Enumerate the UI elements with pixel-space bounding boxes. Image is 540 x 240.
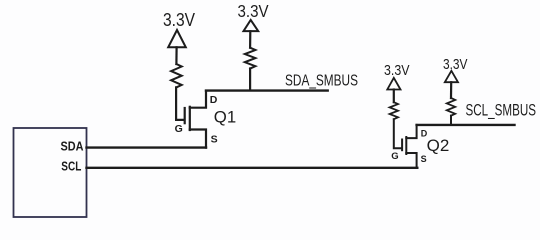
transistor Q2 gate bar bbox=[401, 140, 403, 151]
svg-text:S: S bbox=[211, 134, 218, 146]
svg-text:3.3V: 3.3V bbox=[163, 10, 195, 30]
svg-text:SCL_SMBUS: SCL_SMBUS bbox=[466, 102, 537, 120]
svg-text:G: G bbox=[175, 123, 183, 135]
wire (R4 to SCL_SMBUS net) bbox=[450, 116, 452, 125]
svg-text:Q1: Q1 bbox=[214, 108, 236, 127]
transistor Q2 drain lead bbox=[406, 125, 416, 138]
wire (R2 to SDA_SMBUS net) bbox=[249, 69, 251, 91]
transistor Q1 drain lead bbox=[190, 91, 206, 108]
wire SDA_SMBUS net bbox=[206, 89, 328, 91]
transistor Q2 source lead bbox=[406, 153, 416, 168]
svg-text:G: G bbox=[391, 151, 398, 162]
wire (triangle to resistor R1) bbox=[175, 47, 177, 64]
IC block (I2C master with SDA/SCL pins) bbox=[14, 128, 87, 217]
power symbol 3.3V (Q2 gate pull-up) bbox=[387, 78, 400, 90]
svg-text:D: D bbox=[210, 94, 218, 106]
svg-text:SDA_SMBUS: SDA_SMBUS bbox=[285, 72, 358, 89]
wire (triangle to resistor R3) bbox=[393, 90, 395, 103]
transistor Q1 source lead bbox=[190, 130, 206, 148]
wire (R3 to Q2 gate) bbox=[394, 119, 402, 148]
svg-text:3.3V: 3.3V bbox=[443, 57, 468, 73]
resistor R4 (SCL_SMBUS pull-up) bbox=[447, 98, 455, 116]
wire (R1 to Q1 gate) bbox=[176, 87, 184, 120]
svg-text:SDA: SDA bbox=[61, 140, 84, 154]
resistor R1 (Q1 gate pull-up) bbox=[171, 64, 182, 87]
power symbol 3.3V (SCL_SMBUS pull-up) bbox=[445, 71, 458, 82]
resistor R2 (SDA_SMBUS pull-up) bbox=[245, 48, 256, 69]
transistor Q2 channel bar bbox=[405, 137, 407, 154]
power symbol 3.3V (SDA_SMBUS pull-up) bbox=[244, 20, 259, 31]
svg-text:Q2: Q2 bbox=[427, 136, 450, 155]
svg-text:3.3V: 3.3V bbox=[384, 62, 410, 79]
wire SDA (box to Q1 source) bbox=[87, 146, 207, 148]
power symbol 3.3V (Q1 gate pull-up) bbox=[168, 30, 186, 47]
transistor Q1 gate bar bbox=[184, 108, 186, 123]
svg-text:SCL: SCL bbox=[61, 160, 81, 174]
wire SCL (box to Q2 source) bbox=[87, 167, 418, 169]
svg-text:S: S bbox=[421, 154, 427, 164]
svg-text:3.3V: 3.3V bbox=[238, 1, 269, 21]
transistor Q1 channel bar bbox=[189, 107, 191, 130]
wire SCL_SMBUS net bbox=[417, 124, 515, 126]
wire (triangle to resistor R4) bbox=[450, 82, 452, 98]
wire (triangle to resistor R2) bbox=[249, 31, 251, 48]
resistor R3 (Q2 gate pull-up) bbox=[390, 102, 398, 119]
